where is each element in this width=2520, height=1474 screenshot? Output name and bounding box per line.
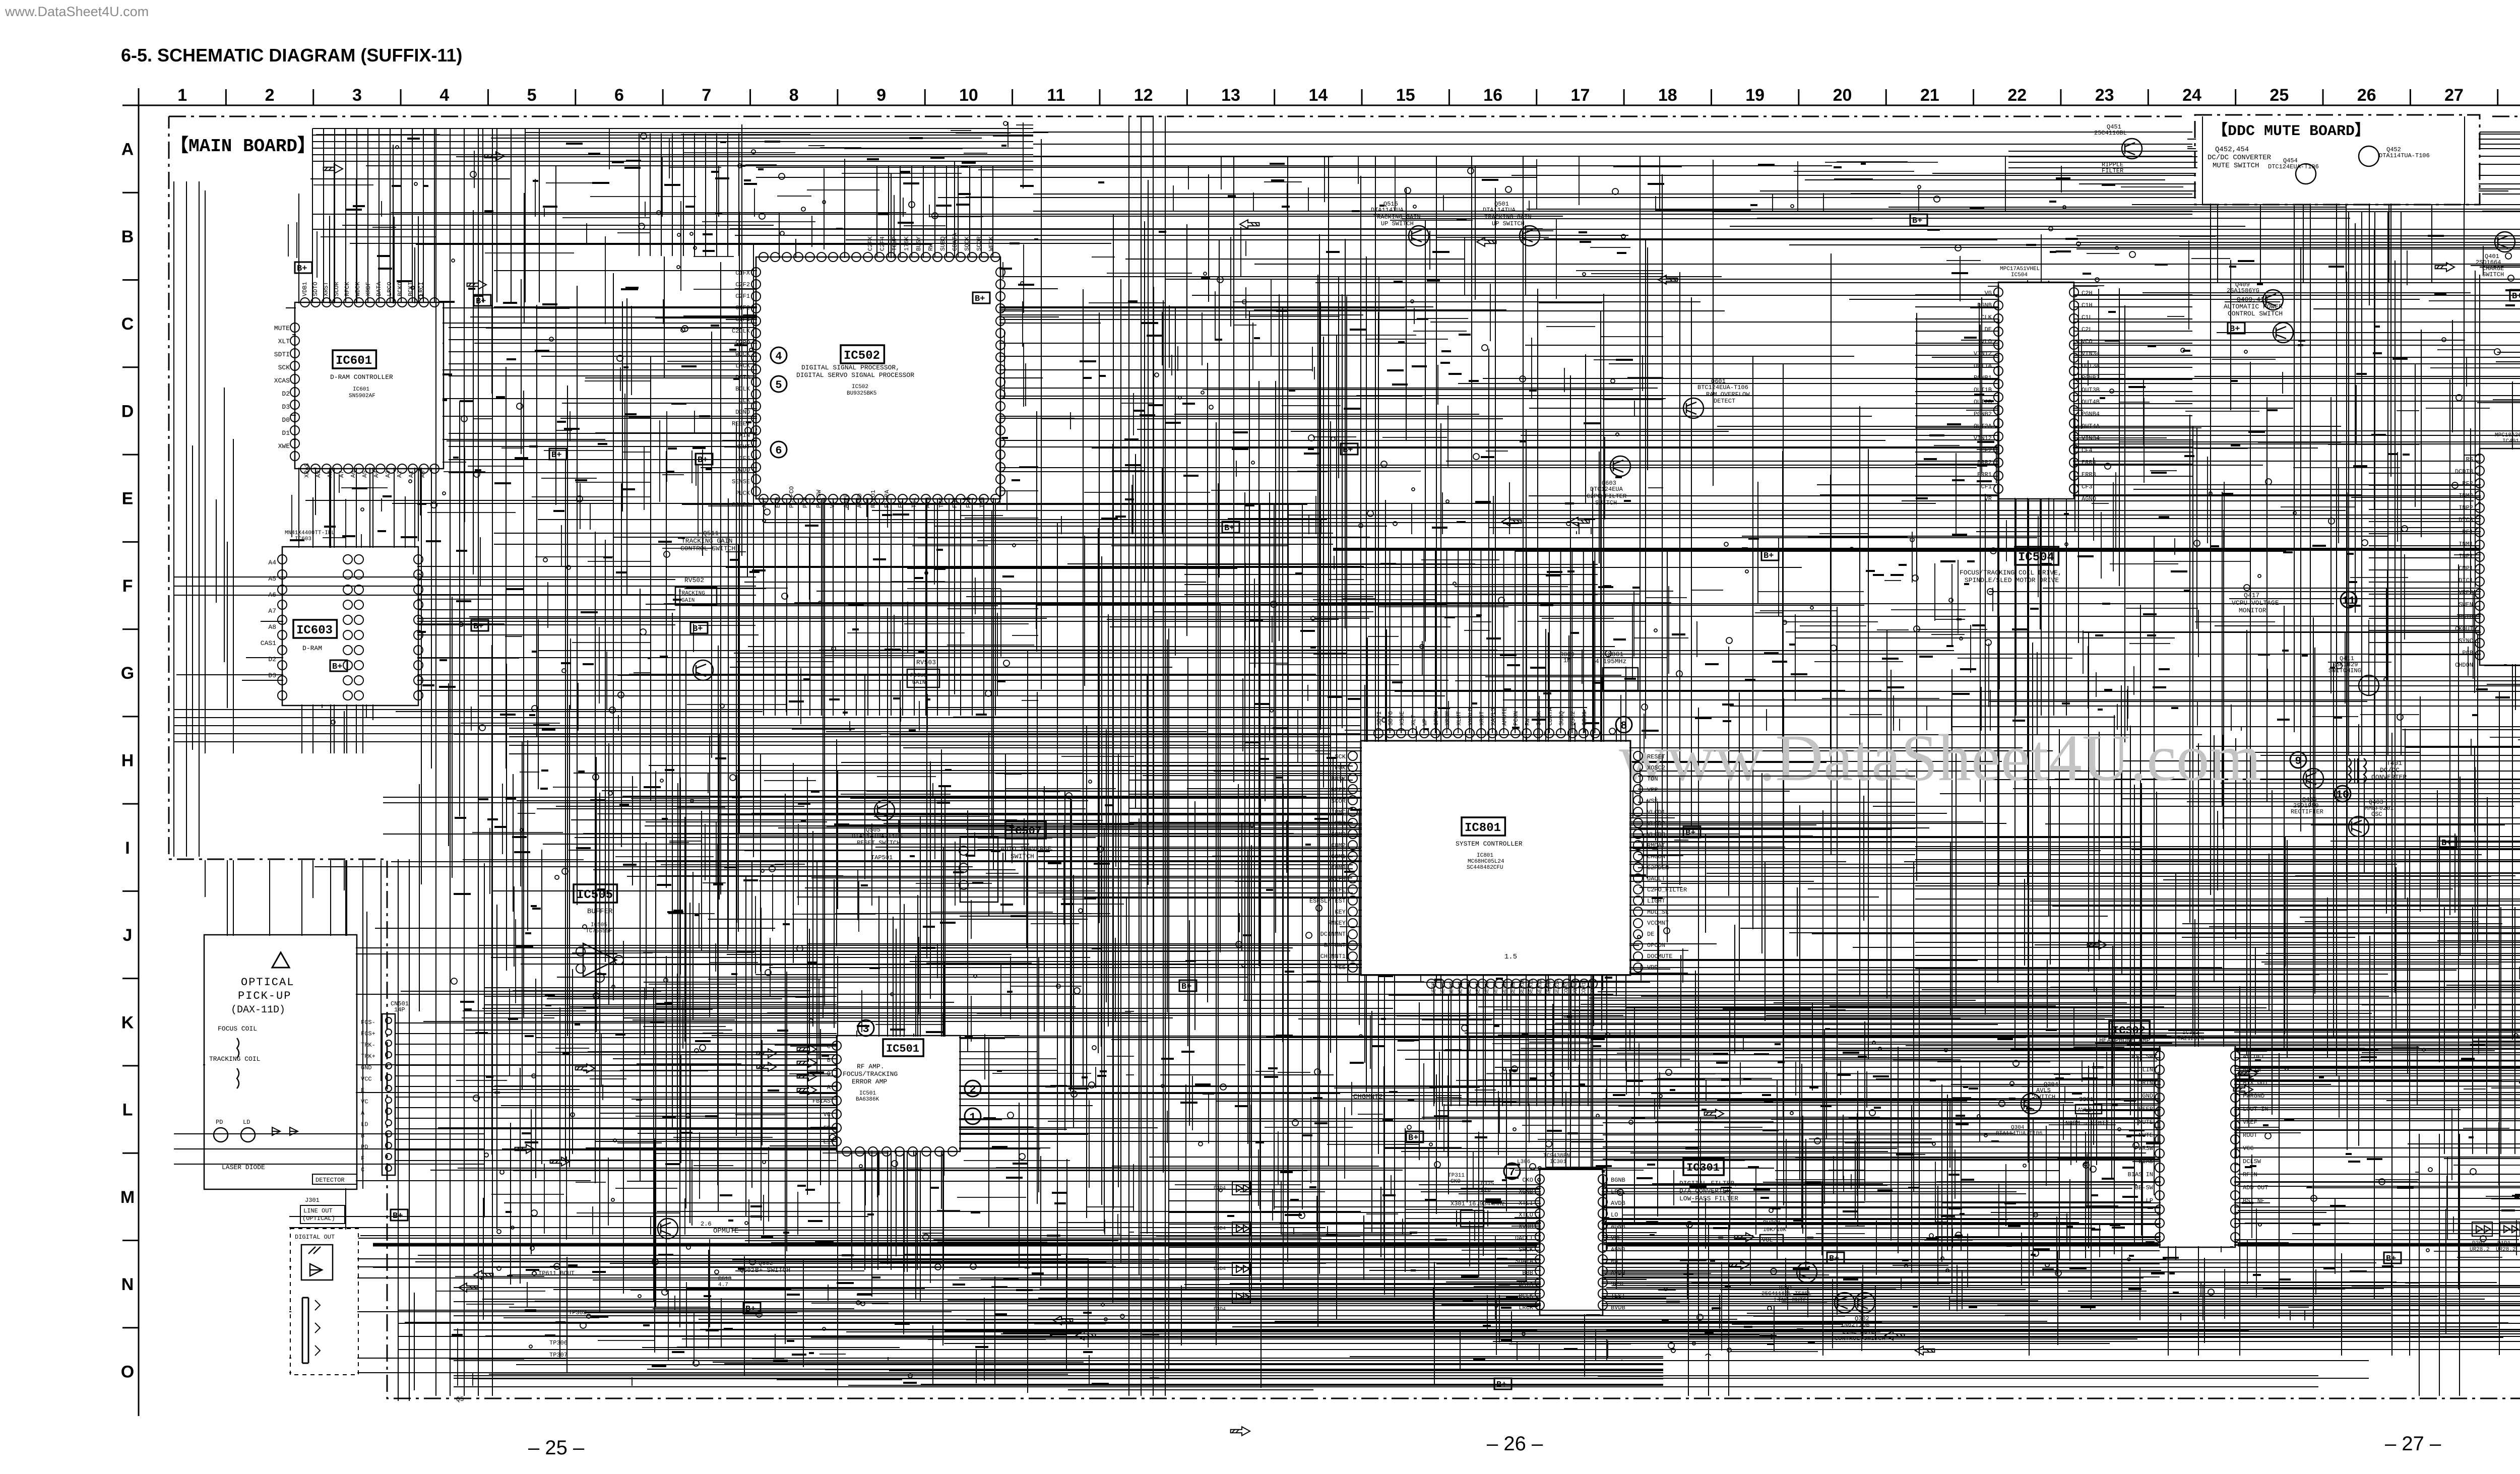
wire top bus row B2 xyxy=(312,214,2192,229)
svg-text:OUT3A: OUT3A xyxy=(2082,362,2100,369)
svg-text:PGNB1: PGNB1 xyxy=(1974,374,1992,381)
svg-text:(OPTICAL): (OPTICAL) xyxy=(302,1215,335,1222)
pickup diodes xyxy=(272,1127,298,1135)
svg-text:C1F1: C1F1 xyxy=(735,316,750,323)
svg-text:VIN34: VIN34 xyxy=(2082,350,2100,357)
wire IC603 bus xyxy=(418,580,675,625)
svg-text:XRSM: XRSM xyxy=(1444,711,1452,726)
svg-text:SEG12: SEG12 xyxy=(1537,979,1543,995)
svg-text:SYSTEM CONTROLLER: SYSTEM CONTROLLER xyxy=(1456,840,1523,848)
svg-text:VPP: VPP xyxy=(1647,787,1658,794)
svg-text:SQCK: SQCK xyxy=(1535,711,1542,726)
svg-text:N: N xyxy=(121,1275,134,1294)
svg-text:RS: RS xyxy=(2466,456,2473,463)
border frame top xyxy=(122,105,2520,106)
svg-text:4: 4 xyxy=(439,86,449,105)
svg-text:D3D4: D3D4 xyxy=(1214,1266,1226,1272)
svg-text:IC603: IC603 xyxy=(296,624,333,637)
Q304 filter caps cluster diodes xyxy=(1232,1182,1250,1195)
svg-text:DETECTOR: DETECTOR xyxy=(316,1177,345,1184)
wire IC502 bottom drops xyxy=(764,499,995,716)
svg-text:24: 24 xyxy=(2182,86,2201,105)
svg-text:MONITOR: MONITOR xyxy=(2239,607,2266,614)
svg-text:INM2: INM2 xyxy=(2459,492,2473,499)
IC501 label xyxy=(883,1039,923,1056)
svg-text:INP2: INP2 xyxy=(2459,504,2473,511)
svg-text:FCS+: FCS+ xyxy=(361,1031,375,1038)
wire mid vertical bundle x2500 xyxy=(1260,504,1302,1209)
svg-text:B+: B+ xyxy=(2441,839,2451,848)
svg-text:I: I xyxy=(125,839,130,858)
svg-text:COM2: COM2 xyxy=(1331,842,1346,849)
wire pickup to amp bundle xyxy=(395,1023,837,1161)
svg-text:TP311: TP311 xyxy=(1448,1173,1465,1179)
svg-text:A6: A6 xyxy=(350,471,357,478)
svg-text:SEG14: SEG14 xyxy=(1555,979,1561,995)
ddc mute board dashed box xyxy=(2195,115,2480,205)
svg-text:Q505: Q505 xyxy=(866,826,880,834)
wire IC502 bottom spread xyxy=(509,728,1331,754)
svg-text:MIX OUT: MIX OUT xyxy=(2243,1079,2268,1086)
svg-text:DE: DE xyxy=(1647,931,1654,938)
svg-text:T401: T401 xyxy=(2386,759,2402,767)
svg-text:TDN: TDN xyxy=(979,497,986,508)
svg-text:CONVERTER: CONVERTER xyxy=(2371,774,2407,781)
svg-text:9: 9 xyxy=(876,86,886,105)
svg-text:BCLK: BCLK xyxy=(735,386,750,393)
IC301 right pins xyxy=(1598,1175,1607,1310)
svg-text:K: K xyxy=(121,1013,134,1032)
texture row A band xyxy=(1132,123,2192,212)
svg-text:B+: B+ xyxy=(393,1211,403,1221)
svg-text:D3: D3 xyxy=(282,403,290,411)
svg-text:IC504: IC504 xyxy=(2018,551,2054,564)
svg-text:BUSY: BUSY xyxy=(1331,776,1346,783)
wire bottom pair xyxy=(454,1361,2369,1378)
IC504 left pins xyxy=(1994,288,2003,493)
svg-text:LD: LD xyxy=(361,1121,368,1128)
svg-text:TP307: TP307 xyxy=(549,1352,568,1359)
svg-text:DGNB: DGNB xyxy=(1977,302,1992,309)
svg-text:IC504: IC504 xyxy=(2011,272,2028,278)
svg-text:CHGMNT1: CHGMNT1 xyxy=(1320,953,1346,960)
wire IC501 bottom drop xyxy=(852,1151,943,1270)
IC502 label xyxy=(841,345,884,363)
svg-text:D2: D2 xyxy=(282,390,290,398)
optical pick-up box xyxy=(204,935,357,1189)
svg-text:SEG10: SEG10 xyxy=(1520,979,1526,995)
border frame left xyxy=(138,88,140,1416)
svg-text:OSC1: OSC1 xyxy=(1581,711,1588,726)
svg-text:CAS1: CAS1 xyxy=(261,639,276,647)
IC302 left pins xyxy=(2155,1051,2164,1242)
svg-text:UR28.2: UR28.2 xyxy=(2496,1247,2516,1253)
svg-text:www.DataSheet4U.com: www.DataSheet4U.com xyxy=(1619,721,2261,795)
svg-text:C2PO: C2PO xyxy=(735,339,750,346)
svg-text:PCO: PCO xyxy=(802,497,809,508)
svg-text:XCAS: XCAS xyxy=(274,377,290,384)
svg-text:ESPSL/TEST: ESPSL/TEST xyxy=(1309,898,1346,905)
svg-text:D3D4: D3D4 xyxy=(1214,1307,1226,1312)
svg-text:SUBQ: SUBQ xyxy=(939,236,947,251)
svg-text:EFM: EFM xyxy=(775,497,782,508)
svg-text:FOCUS/TRACKING COIL DRIVE,: FOCUS/TRACKING COIL DRIVE, xyxy=(1960,569,2062,576)
svg-text:21: 21 xyxy=(1920,86,1939,105)
svg-text:AVLS: AVLS xyxy=(2036,1087,2051,1094)
svg-text:UP SWITCH: UP SWITCH xyxy=(1492,220,1525,227)
texture region TL ICs xyxy=(288,218,650,731)
svg-text:B+: B+ xyxy=(698,456,708,465)
svg-text:D1D1: D1D1 xyxy=(2497,1241,2511,1247)
IC801 right pins xyxy=(1633,751,1643,972)
svg-text:DCINMNT: DCINMNT xyxy=(1320,931,1346,938)
IC603 inner pin columns xyxy=(343,555,352,700)
svg-text:SWITCH: SWITCH xyxy=(2034,1094,2055,1101)
svg-text:BATMNT: BATMNT xyxy=(1324,942,1346,949)
IC801 left pins xyxy=(1348,751,1357,972)
svg-text:Q417: Q417 xyxy=(2244,592,2259,599)
wire pickup vertical xyxy=(398,859,409,1401)
svg-text:www.DataSheet4U.com: www.DataSheet4U.com xyxy=(5,4,149,19)
IC401 block xyxy=(2480,448,2520,665)
svg-text:SEG1: SEG1 xyxy=(1440,982,1446,995)
svg-text:OPEN: OPEN xyxy=(1433,711,1440,726)
svg-text:XLMT: XLMT xyxy=(1456,711,1463,726)
svg-text:XLT: XLT xyxy=(278,338,290,345)
svg-text:DTC3: DTC3 xyxy=(2459,517,2473,524)
svg-text:C2PO FILTER: C2PO FILTER xyxy=(1587,493,1626,500)
svg-text:RAM OVERFLOW: RAM OVERFLOW xyxy=(1706,391,1750,398)
svg-text:NORM → LIMIT: NORM → LIMIT xyxy=(2065,1120,2109,1127)
wire mesh bottom band xyxy=(414,1250,2520,1390)
svg-text:IC507: IC507 xyxy=(1009,825,1042,838)
svg-text:4: 4 xyxy=(775,350,782,363)
svg-text:UR28.2: UR28.2 xyxy=(2470,1247,2490,1253)
wire defect bundle xyxy=(174,710,1361,742)
svg-text:OSC: OSC xyxy=(2371,811,2382,818)
svg-text:SENSE: SENSE xyxy=(732,478,750,485)
svg-text:Q602: Q602 xyxy=(759,1260,773,1267)
svg-text:18: 18 xyxy=(1658,86,1677,105)
signal arrows to IC501 xyxy=(797,1045,816,1054)
svg-text:ADD OUT: ADD OUT xyxy=(2243,1184,2268,1191)
svg-text:D-RAM: D-RAM xyxy=(302,645,322,652)
svg-text:BTC124EUA-T106: BTC124EUA-T106 xyxy=(1697,384,1748,391)
svg-text:AVDB: AVDB xyxy=(1611,1200,1625,1207)
texture region rows JKL mid xyxy=(1161,1035,1462,1235)
svg-text:176K: 176K xyxy=(903,236,910,251)
svg-text:C: C xyxy=(361,1167,364,1174)
svg-text:BUSY: BUSY xyxy=(915,236,922,251)
svg-text:A8: A8 xyxy=(327,471,334,478)
svg-text:SEG4: SEG4 xyxy=(1467,982,1473,995)
wire bottom mid drops xyxy=(1688,1225,1729,1396)
wire DDC top entry xyxy=(2202,116,2465,204)
svg-text:DC/DC: DC/DC xyxy=(2380,766,2400,774)
wire IC401 left stubs xyxy=(2369,461,2480,655)
svg-text:Q304: Q304 xyxy=(2011,1125,2025,1131)
svg-text:A7: A7 xyxy=(338,471,345,478)
svg-text:B+: B+ xyxy=(1343,445,1353,455)
svg-text:VIN34: VIN34 xyxy=(2082,435,2100,442)
svg-text:TA2120FN: TA2120FN xyxy=(2177,1036,2204,1042)
wire right vertical bundle x4700 xyxy=(2349,212,2401,756)
IC302 right pins xyxy=(2231,1051,2240,1242)
svg-text:B+: B+ xyxy=(1224,524,1234,533)
svg-text:TZC: TZC xyxy=(938,497,945,508)
svg-text:C2F1: C2F1 xyxy=(735,293,750,300)
svg-text:【MAIN BOARD】: 【MAIN BOARD】 xyxy=(170,135,316,157)
wire IC504 left stubs xyxy=(1915,295,1998,476)
svg-text:DACLT: DACLT xyxy=(1647,875,1665,882)
svg-text:DOCMUTE: DOCMUTE xyxy=(1647,953,1672,960)
svg-text:CDATA: CDATA xyxy=(952,232,959,251)
svg-text:FOCUS COIL: FOCUS COIL xyxy=(218,1025,257,1033)
texture region IC301 xyxy=(1462,1033,1865,1361)
svg-text:3: 3 xyxy=(862,1023,869,1036)
svg-text:FCS-: FCS- xyxy=(361,1019,375,1026)
svg-text:IC601: IC601 xyxy=(336,354,372,368)
Q501 tracking gain up switch xyxy=(1520,226,1540,246)
svg-text:CONTROL SWITCH: CONTROL SWITCH xyxy=(2228,310,2283,317)
svg-text:22p: 22p xyxy=(1481,1187,1491,1193)
IC301 left pins xyxy=(1535,1175,1544,1310)
wire mesh rows HI xyxy=(479,732,2520,1032)
svg-text:D0: D0 xyxy=(282,416,290,424)
svg-text:6: 6 xyxy=(614,86,624,105)
svg-text:C2L: C2L xyxy=(2082,326,2093,333)
svg-text:BEEP: BEEP xyxy=(2138,1106,2153,1113)
svg-text:SDTO: SDTO xyxy=(312,282,319,296)
IC601 bottom pins xyxy=(300,464,439,473)
svg-text:GND: GND xyxy=(361,1064,372,1071)
svg-text:22: 22 xyxy=(2007,86,2027,105)
svg-text:2: 2 xyxy=(969,1083,976,1096)
svg-text:25C4116BL: 25C4116BL xyxy=(2094,130,2127,137)
Q401 charge switch xyxy=(2495,232,2515,252)
svg-text:1: 1 xyxy=(177,86,187,105)
svg-text:CLK: CLK xyxy=(739,397,750,404)
svg-text:SEG3: SEG3 xyxy=(1458,982,1464,995)
svg-text:SDTO: SDTO xyxy=(1388,711,1395,726)
svg-text:DIGITAL SIGNAL PROCESSOR,: DIGITAL SIGNAL PROCESSOR, xyxy=(801,364,900,371)
svg-text:B+: B+ xyxy=(297,264,307,274)
svg-text:2.6: 2.6 xyxy=(701,1221,712,1228)
svg-text:DATA: DATA xyxy=(1519,1281,1534,1288)
svg-text:ERR4: ERR4 xyxy=(2082,459,2096,466)
wire bottom row O line xyxy=(454,1376,2318,1387)
wire key bus xyxy=(2444,907,2515,1154)
IC302 label xyxy=(2109,1021,2150,1038)
svg-text:3: 3 xyxy=(352,86,362,105)
IC502 top pins xyxy=(759,252,1000,262)
svg-text:DTA114TUA: DTA114TUA xyxy=(1371,207,1404,214)
svg-text:TAP501: TAP501 xyxy=(871,854,893,861)
svg-text:B+: B+ xyxy=(1829,1254,1839,1264)
circled 4 xyxy=(771,347,787,363)
svg-text:C: C xyxy=(121,314,134,334)
svg-text:B+: B+ xyxy=(975,294,985,304)
svg-text:MUTE: MUTE xyxy=(274,325,290,332)
wire mesh global xyxy=(181,133,2520,1393)
svg-text:DSC2: DSC2 xyxy=(1569,711,1577,726)
IC302 block xyxy=(2160,1046,2235,1247)
wire IC801 left links xyxy=(1129,766,1353,865)
IC301 label xyxy=(1683,1158,1724,1175)
wire out bus to motors xyxy=(2076,229,2520,249)
Q403 MMBF0201 OSC xyxy=(2349,816,2369,837)
svg-text:TRACKING GAIN: TRACKING GAIN xyxy=(681,537,732,545)
svg-text:26: 26 xyxy=(2357,86,2376,105)
optical jack xyxy=(302,1298,308,1363)
svg-text:LOUT IN: LOUT IN xyxy=(2243,1106,2268,1113)
svg-text:LINE OUT: LINE OUT xyxy=(303,1207,333,1214)
svg-text:D-RAM CONTROLLER: D-RAM CONTROLLER xyxy=(330,373,393,381)
svg-text:10K/10K: 10K/10K xyxy=(1763,1227,1787,1233)
texture region mid sparse xyxy=(1691,532,1996,731)
wire IC502 top-left drops xyxy=(639,134,739,256)
svg-text:【DDC MUTE BOARD】: 【DDC MUTE BOARD】 xyxy=(2213,122,2370,140)
wire top bus row B xyxy=(1033,194,2192,211)
svg-text:AGND: AGND xyxy=(856,493,863,508)
wire mesh right-mid xyxy=(2168,731,2520,1080)
IC601 label xyxy=(333,350,376,368)
svg-text:B+: B+ xyxy=(2386,1254,2396,1264)
svg-text:RMDAT: RMDAT xyxy=(1647,842,1665,849)
svg-text:SWITCH: SWITCH xyxy=(1595,499,1617,506)
IC501 RF amp block xyxy=(837,1036,960,1151)
svg-text:OUT1A: OUT1A xyxy=(1974,362,1992,369)
svg-text:Q452,454: Q452,454 xyxy=(2215,146,2249,154)
svg-text:A: A xyxy=(827,1084,831,1091)
svg-text:VG: VG xyxy=(1985,290,1992,297)
wire vertical drops IC601 top xyxy=(312,129,434,302)
svg-text:VLCD1: VLCD1 xyxy=(1647,809,1665,816)
svg-text:SPINDLE/SLED MOTOR DRIVE: SPINDLE/SLED MOTOR DRIVE xyxy=(1965,576,2059,584)
svg-text:5: 5 xyxy=(527,86,537,105)
svg-text:DCDTB: DCDTB xyxy=(2455,468,2473,475)
svg-text:LO: LO xyxy=(1611,1211,1618,1219)
svg-text:IC801: IC801 xyxy=(1477,853,1493,859)
svg-text:VCCMNT: VCCMNT xyxy=(1647,920,1669,927)
svg-text:A5: A5 xyxy=(268,575,276,583)
svg-text:B+: B+ xyxy=(1496,1380,1506,1390)
svg-text:BU9325BK5: BU9325BK5 xyxy=(847,391,876,397)
svg-text:RFCK: RFCK xyxy=(344,281,351,296)
IC401 left pins xyxy=(2475,454,2484,660)
wire seg bus to switch unit xyxy=(1598,991,2520,992)
svg-text:PC1FCO: PC1FCO xyxy=(788,486,795,508)
svg-text:COMPC: COMPC xyxy=(732,501,750,508)
svg-text:XRAS: XRAS xyxy=(303,463,310,478)
svg-text:5: 5 xyxy=(775,379,782,392)
svg-text:IC601: IC601 xyxy=(353,387,369,393)
IC603 label xyxy=(293,620,337,638)
svg-text:VCC: VCC xyxy=(2243,1145,2254,1152)
svg-text:CLK: CLK xyxy=(1981,314,1992,321)
focus coil symbol xyxy=(237,1038,239,1058)
svg-text:IC801: IC801 xyxy=(1465,821,1501,835)
circled 11 xyxy=(2341,592,2357,608)
svg-text:Q602: Q602 xyxy=(740,1267,754,1274)
IC601 top pins xyxy=(300,298,439,307)
svg-text:CF3: CF3 xyxy=(2082,483,2093,490)
wire IC502 top drops xyxy=(877,166,993,257)
svg-text:F: F xyxy=(361,1155,364,1162)
svg-text:AVDB: AVDB xyxy=(1611,1269,1625,1276)
IC502 bottom pins xyxy=(759,494,1000,503)
IC603 left pins xyxy=(278,555,287,700)
wire mid vertical bundle x2240 xyxy=(1129,116,1165,1396)
svg-text:SWITCH: SWITCH xyxy=(1011,853,1034,860)
svg-text:17: 17 xyxy=(1571,86,1590,105)
svg-text:D3D4: D3D4 xyxy=(1214,1186,1226,1191)
svg-text:SDTI: SDTI xyxy=(274,351,290,358)
wire bottom bundle xyxy=(454,1288,1537,1330)
svg-text:XWE: XWE xyxy=(278,442,290,450)
texture region bottom left xyxy=(436,1238,1159,1386)
svg-text:B+: B+ xyxy=(1408,1133,1418,1143)
svg-text:PD: PD xyxy=(216,1119,223,1126)
wire seg bundle down xyxy=(1434,984,1588,1106)
svg-text:S301: S301 xyxy=(2079,1096,2094,1103)
wire top-left bus to IC502 xyxy=(312,129,1033,161)
svg-text:LASER DIODE: LASER DIODE xyxy=(222,1164,265,1171)
wire left tall bundle x860 xyxy=(436,129,492,1396)
IC603 right pins xyxy=(414,555,423,700)
texture region IC502 xyxy=(657,153,1038,731)
IC801 top pins xyxy=(1374,729,1600,738)
D801 key wake diodes xyxy=(2472,1222,2492,1236)
IC504 label xyxy=(2015,547,2058,565)
wire left low bundle xyxy=(174,1134,484,1164)
svg-text:DIGITAL SERVO SIGNAL PROCESSOR: DIGITAL SERVO SIGNAL PROCESSOR xyxy=(796,371,914,379)
transistor Q454 xyxy=(2296,164,2316,184)
svg-text:OUT4A: OUT4A xyxy=(2082,423,2100,430)
svg-text:IC501: IC501 xyxy=(886,1043,919,1055)
svg-text:SEG11: SEG11 xyxy=(1529,979,1535,995)
svg-text:XSDE: XSDE xyxy=(1399,711,1406,726)
svg-text:X301 16.9344MHz: X301 16.9344MHz xyxy=(1451,1200,1505,1207)
svg-text:2SA1586YG: 2SA1586YG xyxy=(2227,287,2259,294)
IC502 left pins xyxy=(751,268,761,496)
svg-text:DGND: DGND xyxy=(735,409,750,416)
svg-text:VDD: VDD xyxy=(1647,964,1658,971)
svg-text:VIN12: VIN12 xyxy=(1974,435,1992,442)
svg-text:BCKI: BCKI xyxy=(407,282,414,296)
svg-text:TRACKING COIL: TRACKING COIL xyxy=(209,1055,260,1063)
svg-text:COM2: COM2 xyxy=(1572,982,1579,995)
svg-text:FOK: FOK xyxy=(952,497,959,508)
svg-text:HEADPHONE AMP: HEADPHONE AMP xyxy=(2099,1037,2151,1044)
svg-text:ABPF: ABPF xyxy=(843,493,850,508)
svg-text:SYNC: SYNC xyxy=(2459,637,2473,645)
wire row A mid bundle xyxy=(1033,132,2192,156)
svg-text:XRST: XRST xyxy=(1478,711,1485,726)
svg-text:10: 10 xyxy=(2336,789,2349,801)
svg-text:B+: B+ xyxy=(692,624,703,634)
svg-text:C2F4: C2F4 xyxy=(879,236,886,251)
svg-text:– 25 –: – 25 – xyxy=(528,1437,585,1459)
Q603 c2po filter switch xyxy=(1610,456,1630,476)
svg-text:IC505: IC505 xyxy=(577,888,613,902)
wire feed drops x960 xyxy=(483,129,539,302)
svg-text:X801: X801 xyxy=(1608,651,1623,658)
IC502 DSP block xyxy=(756,257,1000,499)
svg-text:TRACKING GAIN: TRACKING GAIN xyxy=(1373,214,1421,221)
svg-text:Q5: Q5 xyxy=(456,1395,464,1403)
svg-text:D3D4: D3D4 xyxy=(1214,1226,1226,1232)
